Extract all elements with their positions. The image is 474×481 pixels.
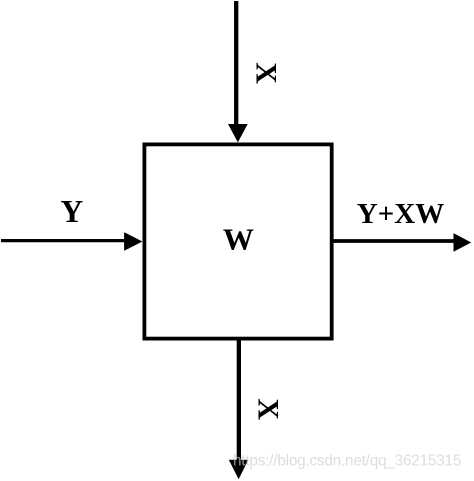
svg-text:https://blog.csdn.net/qq_36215: https://blog.csdn.net/qq_36215315 xyxy=(233,453,461,470)
svg-text:Y+XW: Y+XW xyxy=(357,198,444,230)
svg-text:X: X xyxy=(252,398,285,420)
svg-text:W: W xyxy=(223,222,254,257)
svg-text:X: X xyxy=(250,62,283,84)
svg-text:Y: Y xyxy=(61,194,84,229)
